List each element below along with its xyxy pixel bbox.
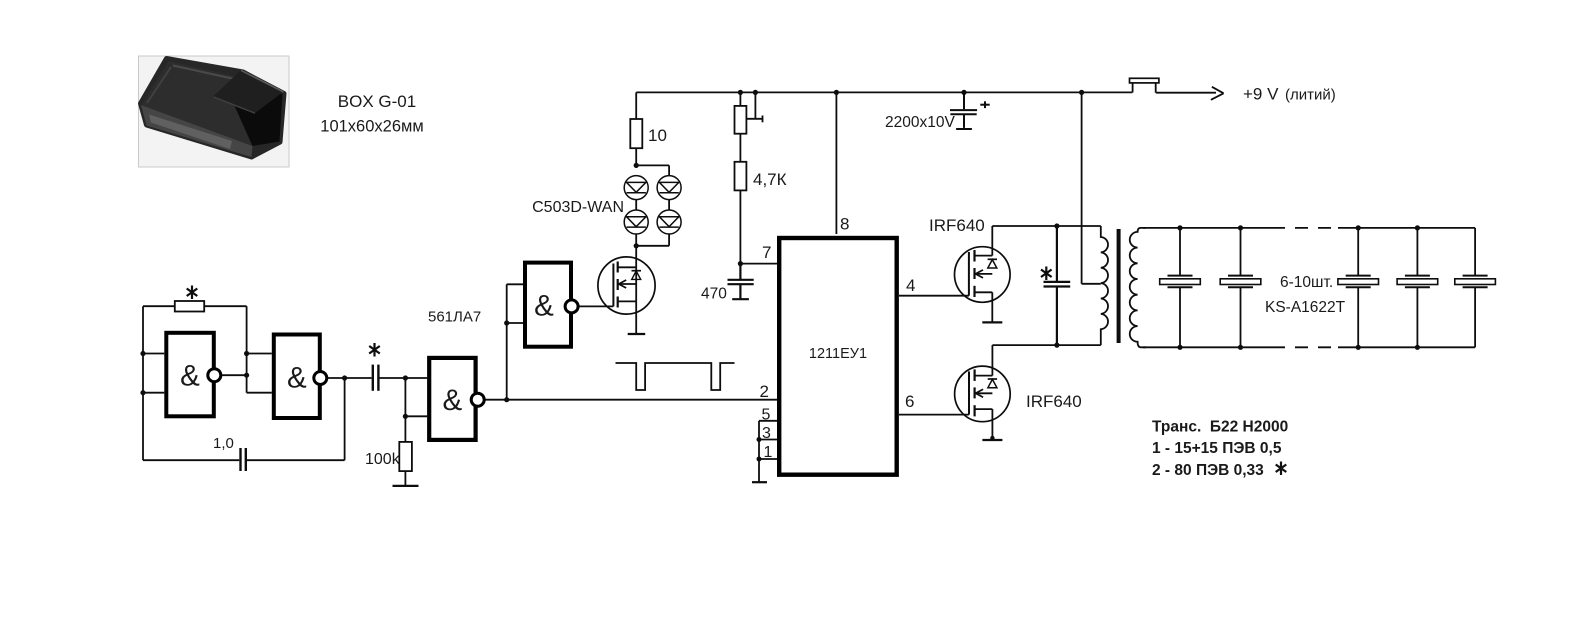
wire to resistor R* left (143, 305, 175, 307)
svg-text:+9 V: +9 V (1243, 85, 1279, 104)
wire capacitor C* to gate3 input A (380, 377, 428, 379)
NAND gate DD1.2 (274, 335, 320, 419)
star mark snubber (1041, 267, 1052, 281)
junction dots IC (738, 261, 762, 462)
svg-text:1 - 15+15 ПЭВ 0,5: 1 - 15+15 ПЭВ 0,5 (1152, 440, 1282, 457)
wire pin 5 (759, 420, 777, 422)
ground pins 5-3-1 (752, 481, 767, 483)
plus mark (980, 101, 989, 108)
transistor VT1 (LED driver mosfet) (598, 257, 655, 334)
LED HL3 (624, 210, 648, 234)
capacitor C* (snubber) (1044, 226, 1071, 345)
fuse (1130, 78, 1159, 83)
svg-text:KS-A1622T: KS-A1622T (1265, 299, 1346, 316)
svg-text:101x60x26мм: 101x60x26мм (320, 118, 423, 136)
capacitor 2200x10V (950, 92, 977, 129)
svg-text:7: 7 (762, 243, 771, 262)
svg-text:4,7К: 4,7К (753, 170, 787, 189)
capacitor 470 (728, 264, 754, 300)
wire pin 3 (759, 439, 777, 441)
wire LED left mid (635, 200, 637, 210)
wire LED top cross (636, 164, 669, 166)
wire pin 8 (835, 92, 837, 234)
wire gate3 output to IC pin 2 (484, 399, 777, 401)
resistor 100k (399, 442, 412, 471)
junction dots battery rails (1177, 225, 1420, 350)
svg-text:&: & (180, 359, 200, 392)
arrow +9V output (1211, 87, 1224, 100)
wire pin 4 (899, 295, 969, 297)
wire LED bottom cross (636, 245, 669, 247)
NAND gate DD1.1 (166, 333, 214, 417)
NAND gate DD1.3 (429, 358, 475, 440)
resistor 10 (630, 119, 642, 148)
transistor Q1 IRF640 top (955, 226, 1011, 322)
ground VT1 (628, 333, 646, 335)
wire feedback vertical (344, 378, 346, 460)
wire gate1 input B (143, 392, 164, 394)
wire gate2 output to capacitor C* (326, 377, 371, 379)
wire left vertical bus (142, 306, 144, 460)
wire secondary top rail (1143, 227, 1272, 229)
wire Q1 source down (991, 292, 993, 321)
wire gate2 input A (247, 353, 272, 355)
body diode Q2 (988, 378, 997, 380)
trimmer resistor (upper) (735, 106, 747, 134)
wire Q2 source down (991, 409, 993, 439)
body diode Q1 (988, 258, 997, 260)
wire Q2 drain rail to transformer bottom (992, 344, 1100, 346)
svg-text:2200x10V: 2200x10V (885, 114, 955, 131)
wire LED right mid (668, 200, 670, 210)
battery GB2 (1220, 228, 1261, 347)
svg-text:8: 8 (840, 215, 849, 234)
wire secondary bottom rail (1143, 346, 1272, 348)
svg-text:100k: 100k (365, 451, 401, 468)
wire rail after fuse to arrow (1156, 92, 1216, 94)
svg-text:Транс. Б22 Н2000: Транс. Б22 Н2000 (1152, 419, 1288, 436)
svg-text:1,0: 1,0 (213, 435, 234, 452)
wire LED right bottom (668, 234, 670, 246)
battery GB3 (1338, 228, 1379, 347)
wire Q2 drain up (991, 345, 993, 376)
svg-text:1211ЕУ1: 1211ЕУ1 (809, 346, 867, 362)
wire LED right branch top (668, 165, 670, 175)
wire 4,7K to pin7 node (739, 190, 741, 263)
wire capacitor 1,0 right (247, 459, 345, 461)
battery GB5 (1455, 228, 1496, 347)
battery GB4 (1397, 228, 1438, 347)
LED HL1 (624, 176, 648, 200)
svg-text:1: 1 (764, 444, 773, 461)
wire gate4 output to mosfet gate (578, 305, 614, 307)
junction dots top rail (738, 90, 1084, 95)
body diode of VT1 (632, 270, 642, 272)
wire gate4 input A (507, 283, 523, 285)
svg-text:C503D-WAN: C503D-WAN (532, 199, 624, 216)
wire pins 5-3-1 ground bus (758, 421, 760, 482)
ground Q1 (982, 321, 1002, 323)
battery GB1 (1160, 228, 1201, 347)
svg-text:561ЛА7: 561ЛА7 (428, 309, 481, 326)
svg-text:&: & (534, 290, 554, 323)
wire gate4 input vertical (506, 284, 508, 399)
transformer core (1117, 229, 1121, 343)
wire LED bottom to mosfet drain (635, 234, 637, 267)
transformer T1 secondary winding (1130, 228, 1146, 347)
wire pin 1 (759, 458, 777, 460)
wire pin 7 (740, 263, 777, 265)
wire 100k to ground (404, 471, 406, 485)
wire gate2 input B (247, 392, 272, 394)
wire node vertical to 100k (404, 378, 406, 442)
wire gate3 input B (405, 415, 427, 417)
star mark on C* (369, 343, 380, 357)
svg-text:10: 10 (648, 126, 667, 145)
capacitor C* (coupling) (373, 365, 379, 391)
wire to capacitor 1,0 left (143, 459, 239, 461)
wire center tap from +9V rail (1082, 92, 1101, 283)
transformer T1 primary winding (1101, 226, 1108, 345)
svg-text:3: 3 (762, 425, 771, 442)
svg-text:&: & (443, 384, 463, 417)
wire resistor R* right to mid bus (204, 305, 246, 307)
resistor 4,7K (735, 162, 747, 191)
ground under 100k (393, 485, 419, 487)
wire Q1 drain rail to transformer top (992, 225, 1101, 227)
wire mid vertical bus (246, 306, 248, 393)
ground Q2 (982, 439, 1002, 441)
svg-text:IRF640: IRF640 (1026, 392, 1082, 411)
wire gate4 input B (507, 322, 523, 324)
trimmer tap (754, 92, 756, 118)
wire Q1 drain up (991, 226, 993, 256)
NAND gate DD1.4 (525, 263, 571, 347)
svg-text:4: 4 (906, 276, 915, 295)
svg-text:&: & (287, 361, 307, 394)
star mark on R* (187, 286, 198, 300)
svg-text:5: 5 (762, 407, 771, 424)
waveform sketch (616, 363, 735, 390)
junction dots (oscillator) (140, 320, 509, 419)
svg-text:6-10шт.: 6-10шт. (1280, 274, 1333, 291)
LED HL4 (657, 210, 681, 234)
svg-text:IRF640: IRF640 (929, 216, 985, 235)
svg-text:BOX G-01: BOX G-01 (338, 92, 416, 111)
LED HL2 (657, 176, 681, 200)
wire gate1 input A (143, 353, 164, 355)
wire top rail left start to resistor 10 (635, 92, 637, 119)
resistor R* (timing) (175, 301, 204, 312)
wire top rail (636, 91, 1132, 93)
wire gate1 output (220, 374, 246, 376)
star mark note (1276, 462, 1287, 476)
wire pin 6 (899, 414, 969, 416)
IC U1 1211ЕУ1 (779, 238, 897, 475)
svg-text:2 - 80 ПЭВ 0,33: 2 - 80 ПЭВ 0,33 (1152, 462, 1264, 479)
svg-text:6: 6 (905, 392, 914, 411)
photo: BOX G-01 enclosure (139, 56, 290, 167)
capacitor 1,0 (241, 448, 246, 471)
junction dots LED branch (634, 163, 639, 249)
transistor Q2 IRF640 bottom (955, 345, 1011, 440)
wire resistor 10 to LED top node (635, 148, 637, 165)
svg-text:(литий): (литий) (1285, 87, 1336, 104)
wire VT1 source to ground (635, 301, 637, 333)
svg-text:470: 470 (701, 286, 727, 303)
svg-text:2: 2 (760, 382, 769, 401)
